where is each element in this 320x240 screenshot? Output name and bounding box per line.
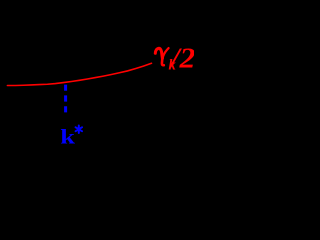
curve gamma_k/2 (red) bbox=[7, 63, 151, 85]
label asterisk (blue, 6-pointed) bbox=[76, 126, 82, 134]
svg-text:k: k bbox=[60, 126, 75, 149]
dashed vertical line (blue) bbox=[64, 85, 67, 113]
svg-text:/2: /2 bbox=[169, 44, 194, 74]
label gamma bbox=[155, 48, 168, 65]
